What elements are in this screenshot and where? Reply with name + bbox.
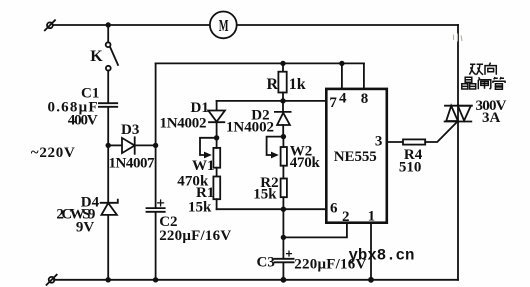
svg-text:6: 6 xyxy=(330,200,338,216)
wire pin 7 line xyxy=(217,100,327,102)
wire pin2 route xyxy=(283,223,347,238)
wire C2 to bottom rail xyxy=(155,212,157,280)
svg-text:510: 510 xyxy=(399,159,422,175)
diode D3 xyxy=(108,137,155,154)
wire R bottom lead xyxy=(282,93,284,112)
wire pin 6 rail xyxy=(217,208,327,210)
svg-text:4: 4 xyxy=(339,90,347,106)
wire second vertical x=155.6 xyxy=(155,63,157,208)
svg-text:W1: W1 xyxy=(192,158,215,174)
char 双 xyxy=(469,64,483,75)
char 闸 xyxy=(478,77,491,89)
wire inner top rail xyxy=(156,62,364,64)
node pin1 bottom xyxy=(368,277,374,283)
svg-text:1k: 1k xyxy=(289,76,306,93)
wire top rail left of motor xyxy=(53,24,210,26)
svg-text:400V: 400V xyxy=(68,112,98,128)
wire pin1 to bottom xyxy=(370,223,372,280)
char 晶 xyxy=(462,77,476,89)
svg-text:R: R xyxy=(267,76,279,93)
node D3 right xyxy=(153,143,158,148)
triac V1 xyxy=(445,106,472,122)
svg-text:8: 8 xyxy=(361,91,369,107)
wire triac center vertical xyxy=(457,105,459,122)
faint scan smudge xyxy=(454,34,463,42)
capacitor C1 xyxy=(99,103,117,107)
node bottom left vertical xyxy=(106,277,111,282)
svg-text:15k: 15k xyxy=(253,186,277,202)
svg-text:3: 3 xyxy=(375,134,383,150)
node W2 top xyxy=(281,134,286,139)
svg-text:1N4002: 1N4002 xyxy=(226,120,274,136)
char 管 xyxy=(492,77,505,89)
wire C1 to D3 node xyxy=(107,107,109,145)
node R top xyxy=(280,61,285,66)
svg-text:ybx8.cn: ybx8.cn xyxy=(349,247,415,265)
wire R top lead xyxy=(282,63,284,71)
diode D1 xyxy=(208,111,225,138)
node C3 bottom xyxy=(281,277,287,283)
terminal top-left xyxy=(45,20,55,30)
svg-text:D3: D3 xyxy=(121,122,139,138)
capacitor C3 xyxy=(275,251,294,262)
wire W2-R2 xyxy=(282,166,284,179)
terminal bottom-left xyxy=(47,275,57,285)
motor M1 xyxy=(210,12,237,39)
potentiometer W2 xyxy=(267,137,287,166)
wire right vertical (top rail to triac) xyxy=(457,25,459,105)
wire junction to switch xyxy=(107,25,109,42)
svg-text:3A: 3A xyxy=(482,110,501,126)
wire C3 to bottom xyxy=(282,262,284,279)
potentiometer W1 xyxy=(200,138,220,168)
char 向 xyxy=(485,63,496,75)
zener diode D4 xyxy=(101,200,118,215)
resistor R xyxy=(278,72,286,93)
resistor R2 xyxy=(281,179,287,198)
node D3 left xyxy=(106,143,111,148)
wire pin4 drop xyxy=(341,63,343,89)
wire R4 to gate xyxy=(425,123,456,143)
svg-text:220μF/16V: 220μF/16V xyxy=(159,228,231,244)
wire D3 node to D4 xyxy=(107,145,109,279)
svg-text:15k: 15k xyxy=(188,199,212,215)
svg-text:D1: D1 xyxy=(191,100,209,116)
wire R1 to pin6 rail xyxy=(216,199,218,209)
wire C3 vertical xyxy=(282,209,284,259)
wire R2 to pin6 rail xyxy=(282,197,284,209)
wire W1-R1 xyxy=(216,168,218,177)
svg-text:M: M xyxy=(219,16,229,35)
svg-text:~220V: ~220V xyxy=(31,145,75,161)
svg-text:470k: 470k xyxy=(290,155,321,171)
svg-text:1N4007: 1N4007 xyxy=(109,155,156,171)
node top-left junction xyxy=(106,22,111,27)
svg-text:NE555: NE555 xyxy=(334,149,377,165)
node pin6/C3 top xyxy=(281,207,286,212)
label Chinese: 双向晶闸管 (hand-drawn strokes) xyxy=(462,63,506,90)
diode D2 xyxy=(275,112,291,137)
svg-text:9V: 9V xyxy=(76,219,95,235)
node bottom C2 xyxy=(153,277,158,282)
svg-text:C3: C3 xyxy=(257,254,275,270)
node pin4 top xyxy=(339,61,344,66)
svg-text:1: 1 xyxy=(368,209,376,225)
wire triac to bottom rail xyxy=(457,122,459,280)
node R bottom / pin7 xyxy=(280,98,285,103)
switch K xyxy=(106,42,118,70)
op-amp U1 NE555 box xyxy=(326,89,387,223)
wire pin8 drop xyxy=(363,63,365,89)
resistor R4 xyxy=(403,139,425,144)
wire bottom rail xyxy=(54,279,458,281)
node pin2 branch xyxy=(281,235,286,240)
node W1 top xyxy=(214,135,219,140)
wire corner down to D1 xyxy=(216,101,218,111)
wire pin3 lead xyxy=(387,141,403,143)
svg-text:1N4002: 1N4002 xyxy=(160,116,207,132)
svg-text:2: 2 xyxy=(342,209,350,225)
svg-text:K: K xyxy=(90,48,103,65)
svg-text:7: 7 xyxy=(329,95,337,111)
capacitor C2 xyxy=(147,200,165,212)
wire switch to C1 xyxy=(107,71,109,103)
wire top rail right of motor xyxy=(237,24,458,26)
resistor R1 xyxy=(213,177,220,200)
